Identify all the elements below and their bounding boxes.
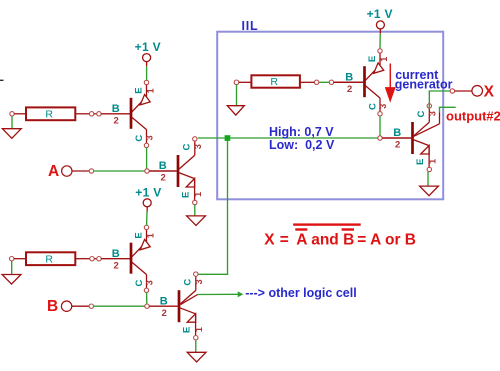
svg-text:C: C: [181, 143, 192, 150]
svg-text:1: 1: [145, 233, 155, 238]
svg-text:C: C: [182, 279, 193, 286]
wire +1V into box to Q4 emitter: [379, 34, 381, 49]
svg-text:1: 1: [193, 192, 203, 197]
svg-text:E: E: [181, 192, 192, 198]
resistor R2: [26, 252, 75, 265]
overline long: [293, 223, 361, 225]
svg-text:2: 2: [162, 308, 167, 319]
svg-text:C: C: [368, 103, 379, 110]
svg-text:R: R: [270, 76, 278, 88]
wire R1 right stub: [75, 113, 89, 115]
node bus junction under Q4: [378, 136, 382, 140]
svg-text:+1 V: +1 V: [135, 40, 161, 54]
svg-text:3: 3: [145, 280, 155, 285]
svg-text:X: X: [484, 84, 495, 101]
transistor Q3: [101, 225, 155, 292]
svg-text:B: B: [345, 71, 353, 83]
wire Q3 collector down to B junction: [146, 293, 148, 305]
svg-text:B: B: [159, 160, 167, 172]
wire Q5 second collector stub output#2: [440, 107, 456, 112]
transistor Q6: [160, 272, 204, 340]
svg-text:X: X: [264, 231, 275, 248]
wire R1 left stub: [14, 113, 26, 115]
svg-text:2: 2: [347, 84, 352, 95]
svg-text:A: A: [48, 163, 59, 180]
svg-text:R: R: [45, 253, 53, 265]
svg-text:B: B: [47, 298, 58, 315]
wire Q4 base pin: [334, 81, 364, 83]
transistor Q2: [159, 137, 203, 205]
wire down-left to Q6 collector: [198, 273, 229, 275]
ground under Q6: [187, 352, 206, 362]
transistor Q5: [393, 104, 437, 172]
svg-text:B: B: [393, 127, 401, 139]
node junction A / Q1 collector: [145, 169, 149, 173]
wire Q1 base: [100, 113, 102, 115]
overline A: [295, 228, 307, 230]
svg-text:2: 2: [114, 260, 119, 271]
svg-text:generator: generator: [395, 77, 453, 91]
overline B: [342, 228, 354, 230]
svg-text:B: B: [160, 295, 168, 307]
wire Q5 emitter to ground: [427, 172, 429, 186]
svg-text:3: 3: [427, 111, 437, 116]
wire Q6 emitter to ground: [195, 340, 197, 353]
node GND pin of R3: [234, 80, 239, 85]
svg-text:= A or B: = A or B: [357, 231, 416, 248]
svg-text:output#2: output#2: [446, 108, 500, 123]
wire B stub: [72, 305, 89, 307]
node R2-Q3 pin ends: [90, 257, 94, 261]
ground under R3: [236, 85, 238, 106]
wire Q6 second collector: [181, 295, 198, 305]
frame tick at left edge: [0, 80, 4, 81]
wire bus to Q5 base junction: [230, 137, 377, 139]
wire A stub: [72, 170, 89, 172]
wire Q1 collector down: [146, 148, 148, 169]
wire X stub: [455, 90, 472, 92]
current generator arrow: [389, 64, 391, 89]
node Q4 base pin end: [329, 80, 333, 84]
svg-text:B: B: [112, 248, 120, 260]
wire Q2 emitter to ground: [194, 205, 196, 216]
wire Q4 collector to bus: [379, 116, 381, 136]
svg-text:=: =: [280, 231, 289, 248]
wire Q6 second collector to other cell: [198, 293, 239, 295]
wire R3 right stub: [300, 81, 314, 83]
transistor Q4: [335, 49, 389, 116]
svg-text:1: 1: [145, 88, 155, 93]
svg-text:B: B: [112, 103, 120, 115]
svg-text:R: R: [45, 108, 53, 120]
svg-text:---> other logic cell: ---> other logic cell: [245, 286, 356, 300]
svg-text:1: 1: [194, 327, 204, 332]
node X pin end: [450, 89, 454, 93]
svg-text:2: 2: [395, 140, 400, 151]
wire Q5 base pin: [382, 137, 411, 139]
svg-text:3: 3: [145, 135, 155, 140]
wire B to junction: [94, 305, 145, 307]
svg-text:3: 3: [378, 104, 388, 109]
svg-text:E: E: [134, 87, 145, 93]
wire R3 left stub: [239, 81, 252, 83]
svg-text:2: 2: [161, 173, 166, 184]
svg-text:C: C: [134, 280, 145, 287]
wire Q5 second collector: [414, 124, 440, 137]
node R3 pin end: [314, 80, 318, 84]
ground under R2: [11, 261, 13, 275]
svg-text:A and B: A and B: [296, 231, 354, 248]
wire R3 to Q4 base: [319, 81, 329, 83]
ground under Q5: [420, 186, 439, 196]
wire bus Q2-collector to square junction: [198, 137, 225, 139]
wire +1V to Q3 emitter: [146, 211, 148, 225]
wire Q2 base pin: [149, 170, 177, 172]
svg-text:E: E: [415, 159, 426, 165]
svg-text:2: 2: [114, 115, 119, 126]
IIL cell boundary box: [217, 32, 443, 200]
svg-text:C: C: [416, 110, 427, 117]
wire R2 left stub: [14, 258, 26, 260]
transistor Q1: [101, 80, 155, 147]
node B pin end: [89, 304, 93, 308]
svg-text:E: E: [367, 56, 378, 62]
svg-text:+1 V: +1 V: [135, 185, 161, 199]
node R1-Q1 pin ends: [89, 112, 93, 116]
wire A to junction: [94, 170, 145, 172]
wire Q6 base pin: [149, 305, 178, 307]
ground under R1: [11, 116, 13, 129]
resistor R3: [251, 75, 300, 87]
svg-text:E: E: [134, 232, 145, 238]
node GND pin of R1: [10, 112, 14, 116]
svg-text:1: 1: [428, 159, 438, 164]
node junction B / Q3 collector: [145, 304, 149, 308]
ground under Q2: [187, 216, 206, 226]
svg-text:3: 3: [194, 279, 204, 284]
wire +1V to Q1 emitter: [146, 66, 148, 80]
wire Q5 collector up to X: [429, 91, 450, 109]
port X output: [472, 86, 483, 97]
resistor R1: [26, 107, 75, 120]
junction green square: [225, 135, 231, 141]
svg-text:C: C: [134, 135, 145, 142]
node A pin end: [89, 169, 93, 173]
svg-text:E: E: [182, 327, 193, 333]
svg-text:3: 3: [193, 144, 203, 149]
svg-text:1: 1: [379, 57, 389, 62]
node GND pin of R2: [10, 257, 14, 261]
wire bus down from square: [227, 141, 229, 274]
wire R2 right stub: [75, 258, 90, 260]
svg-text:Low: 0,2 V: Low: 0,2 V: [269, 138, 335, 152]
svg-text:IIL: IIL: [242, 19, 259, 33]
svg-text:+1 V: +1 V: [367, 7, 393, 21]
